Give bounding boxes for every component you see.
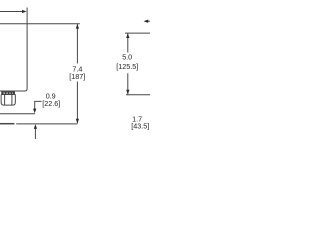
top width dimension line (cropped at left) (0, 11, 22, 13)
base arrow stem (34, 128, 36, 139)
cable gland hex nut outline (1, 94, 15, 105)
depth dimension line (cropped at right) with left arrowhead (145, 20, 150, 22)
enclosure bottom edge (0, 90, 25, 92)
base line right segment (16, 123, 77, 125)
base up arrowhead (34, 124, 37, 129)
base line left thick segment (0, 123, 14, 125)
cable gland hex nut facet lines (5, 95, 12, 105)
7.4 dimension bottom arrowhead (76, 119, 79, 124)
0.9 leader line (35, 101, 42, 109)
enclosure right edge with top extension line and rounded bottom corner (24, 8, 27, 92)
svg-text:[43.5]: [43.5] (131, 122, 149, 131)
5.0 dimension line upper segment (127, 34, 129, 53)
0.9 leader down arrowhead (33, 109, 36, 114)
7.4 dimension top arrowhead (76, 24, 79, 29)
right view top edge (125, 32, 150, 34)
svg-text:[125.5]: [125.5] (116, 62, 138, 71)
cable gland knurl ticks (2, 92, 15, 94)
right view bottom edge (126, 94, 150, 96)
svg-text:[187]: [187] (69, 72, 85, 81)
svg-text:[22.6]: [22.6] (42, 99, 60, 108)
7.4 dimension line lower segment (76, 82, 78, 124)
svg-text:5.0: 5.0 (122, 53, 132, 62)
enclosure top edge extended to dimension line (0, 23, 80, 25)
5.0 dimension bottom arrowhead (126, 90, 129, 95)
7.4 dimension line upper segment (76, 24, 78, 63)
top width dimension right arrowhead (22, 10, 27, 13)
shelf line (upper bottom line) (0, 113, 35, 115)
cable gland knurled flange outline (2, 92, 15, 94)
5.0 dimension top arrowhead (126, 33, 129, 38)
5.0 dimension line lower segment (127, 73, 129, 94)
